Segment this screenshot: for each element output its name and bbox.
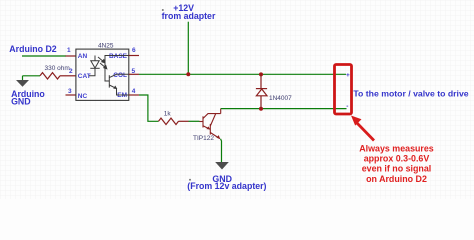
svg-text:5: 5 <box>132 68 136 75</box>
svg-text:BASE: BASE <box>109 53 128 60</box>
svg-text:from adapter: from adapter <box>162 11 216 21</box>
junction top +12V <box>186 72 190 76</box>
svg-text:1: 1 <box>67 47 71 54</box>
ground Arduino GND <box>22 76 24 80</box>
ground (from 12v adapter) <box>215 162 229 170</box>
node +12V label <box>162 9 164 11</box>
svg-text:-: - <box>346 103 348 110</box>
wire pin4 to R2 <box>139 95 159 121</box>
pin 5 stub <box>129 73 139 75</box>
svg-text:6: 6 <box>132 47 136 54</box>
svg-text:330 ohm: 330 ohm <box>45 65 70 72</box>
LED arrows <box>98 57 107 69</box>
svg-text:on Arduino D2: on Arduino D2 <box>366 174 427 184</box>
transistor Q1 TIP122 <box>200 109 221 139</box>
junction bottom diode <box>259 107 263 111</box>
svg-text:+: + <box>346 72 350 79</box>
svg-text:(From 12v adapter): (From 12v adapter) <box>187 181 266 191</box>
svg-text:NC: NC <box>78 93 88 100</box>
svg-text:Arduino D2: Arduino D2 <box>9 44 57 54</box>
LED inside 4N25 <box>89 56 100 76</box>
connector red highlight box <box>335 65 352 115</box>
svg-text:2: 2 <box>69 68 73 75</box>
svg-text:approx 0.3-0.6V: approx 0.3-0.6V <box>364 154 430 164</box>
svg-text:4: 4 <box>132 88 136 95</box>
op-amp U1 4N25 box <box>76 49 129 100</box>
wire bottom rail <box>221 108 347 110</box>
svg-text:TIP122: TIP122 <box>193 135 214 142</box>
svg-text:1N4007: 1N4007 <box>269 95 292 102</box>
svg-text:1k: 1k <box>164 111 172 118</box>
diode D1 1N4007 <box>256 74 267 108</box>
wire top rail <box>139 73 346 75</box>
svg-text:Always measures: Always measures <box>359 143 434 153</box>
svg-text:4N25: 4N25 <box>98 42 114 49</box>
wire +12V down <box>187 22 189 75</box>
node GND label <box>189 179 191 181</box>
phototransistor inside 4N25 <box>105 56 129 96</box>
pin 4 stub <box>129 94 139 96</box>
svg-text:3: 3 <box>68 88 72 95</box>
pin 1 stub <box>66 55 76 57</box>
svg-text:even if no signal: even if no signal <box>362 164 432 174</box>
svg-text:AN: AN <box>78 53 88 60</box>
junction top diode <box>259 72 263 76</box>
pin 3 stub <box>66 94 76 96</box>
resistor 1k <box>159 118 179 124</box>
red annotation arrow <box>357 123 375 141</box>
svg-text:GND: GND <box>11 97 31 107</box>
svg-text:To the motor / valve to drive: To the motor / valve to drive <box>353 89 468 99</box>
resistor 330 ohm <box>40 73 60 79</box>
wire R2 to Q1 <box>189 120 200 122</box>
pin 2 stub <box>60 75 76 77</box>
wire gnd to R1 <box>23 75 41 77</box>
wire D2 to pin1 <box>22 55 66 57</box>
pin 6 stub <box>129 55 139 57</box>
svg-text:CAT: CAT <box>78 73 91 80</box>
wire emitter down <box>221 139 222 162</box>
